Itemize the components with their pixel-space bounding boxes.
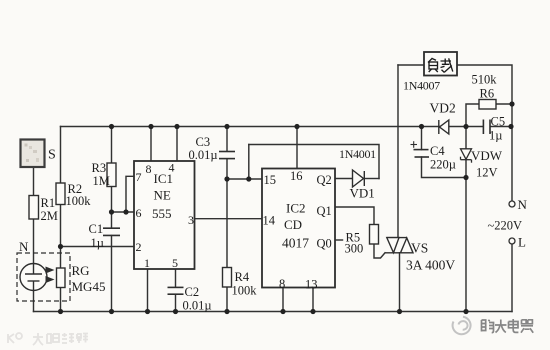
svg-text:IC1: IC1 [154,171,174,186]
svg-text:220µ: 220µ [430,158,456,172]
watermark 鹏升电器 (drawn glyphs) [482,319,534,333]
capacitor C4 polarized [414,150,430,157]
junction triac on ground rail [397,309,402,314]
watermark logo bottom right [453,317,471,334]
svg-text:100k: 100k [232,284,258,298]
svg-text:3A 400V: 3A 400V [406,258,455,273]
wire top VCC rail [61,126,484,128]
svg-text:R3: R3 [92,161,107,175]
svg-text:8: 8 [146,162,152,176]
svg-text:R1: R1 [41,196,56,210]
wire top rail right of C5 [491,126,512,128]
resistor R6 [479,100,496,110]
svg-text:Q1: Q1 [317,204,332,218]
wire VDW bottom to ground [465,160,467,312]
junction VDW on VCC rail [463,124,468,129]
wire RG bottom to ground rail [33,291,35,312]
svg-text:L: L [518,235,526,250]
wire pin8 stub [150,127,152,162]
svg-text:~220V: ~220V [488,219,523,233]
svg-text:5: 5 [172,256,178,270]
junction pin13 on ground rail [310,309,315,314]
wire load left [398,64,424,66]
wire C4 bottom elbow [422,157,467,178]
junction C4 on VCC rail [419,124,424,129]
svg-text:C2: C2 [185,285,200,299]
wire pin13 IC2 to ground [312,288,314,312]
svg-text:C5: C5 [491,115,506,129]
terminal L [509,238,515,244]
junction VDW on ground rail [463,309,468,314]
svg-text:1µ: 1µ [91,236,104,250]
wire load to triac top [397,65,399,238]
wire ground rail [34,311,513,313]
svg-text:VS: VS [411,241,428,256]
C4 plus sign [411,141,418,148]
junction C3 bottom at pin15 wire [224,176,229,181]
svg-text:N: N [518,197,528,212]
svg-text:2M: 2M [41,209,58,223]
svg-text:14: 14 [263,214,276,228]
capacitor C2 [168,287,184,294]
diode VD1 [353,170,365,187]
resistor R4 [223,268,232,288]
svg-text:MG45: MG45 [72,279,106,294]
svg-text:7: 7 [136,170,142,184]
junction RG on ground rail [58,309,63,314]
wire Q0 stub [335,239,343,241]
capacitor C3 [219,152,235,159]
wire Q1 to R5 [335,207,374,225]
wire pin6 [112,211,135,213]
load text 负载 (drawn glyphs) [428,58,453,72]
photocell dashed enclosure N [17,253,70,301]
svg-text:RG: RG [72,263,90,278]
junction R2-RG divider at pin2 wire [58,244,63,249]
svg-text:13: 13 [305,278,318,292]
terminal N [509,201,515,207]
svg-text:IC2: IC2 [286,201,306,216]
svg-text:VD2: VD2 [430,101,456,116]
wire VDW branch [465,127,467,149]
wire triac bottom to ground [399,253,401,312]
wire C3/R4 column upper [226,127,228,152]
svg-text:0.01µ: 0.01µ [189,148,218,162]
junction pin8 on VCC rail [148,124,153,129]
svg-text:16: 16 [290,169,303,183]
junction C4 bottom at VDW line [463,175,468,180]
svg-text:510k: 510k [472,73,498,87]
wire R6 right [496,103,512,105]
junction pin1 on ground rail [145,309,150,314]
svg-text:VD1: VD1 [350,186,375,201]
svg-text:4017: 4017 [282,236,309,251]
load box 负载 [424,52,457,76]
capacitor C1 [103,228,120,235]
junction C1 on ground rail [109,309,114,314]
watermark bottom left (drawn glyphs) [8,333,88,345]
svg-text:N: N [19,239,29,254]
svg-text:R4: R4 [235,270,250,284]
junction reset riser at pin15 wire [246,176,251,181]
wire pin16 stub [296,127,298,169]
photoresistor RG box [57,268,66,288]
svg-text:15: 15 [264,173,277,187]
junction C3 top on VCC rail [224,124,229,129]
resistor R2 [56,183,65,205]
svg-text:1: 1 [144,256,150,270]
sensor S [21,140,45,168]
svg-text:CD: CD [284,217,302,232]
junction pin4 on VCC rail [174,124,179,129]
svg-text:1µ: 1µ [489,129,502,143]
junction R6 right [509,101,514,106]
wire C4 branch [421,127,423,150]
wire R6 left riser [466,104,479,127]
wire reset node riser [248,145,250,180]
wire C1 bottom to ground [111,236,113,312]
wire left column S/R1/RG vertical [33,166,35,264]
wire R5 to gate [374,244,385,258]
wire pin8 IC2 to ground [282,288,284,312]
svg-text:R6: R6 [480,87,495,101]
svg-text:3: 3 [188,213,194,227]
svg-text:C3: C3 [196,135,211,149]
photocell lamp circle [20,264,47,291]
svg-text:8: 8 [279,277,285,291]
light arrows into RG [46,267,55,284]
wire R2 column vertical [60,127,62,312]
IC1 NE555 box [134,161,195,269]
wire pin5 to C2 [175,269,177,287]
wire VD1 cathode [366,178,380,180]
resistor R5 [370,225,379,245]
capacitor C5 [483,120,490,135]
zener VDW [461,149,472,163]
diode VD2 [439,120,449,134]
svg-text:1N4001: 1N4001 [339,147,376,161]
svg-text:2: 2 [136,240,142,254]
junction pin8 IC2 on ground rail [280,309,285,314]
resistor R1 [29,196,39,220]
svg-text:0.01µ: 0.01µ [183,299,212,313]
triac VS [385,238,414,253]
junction R3 top on VCC rail [109,124,114,129]
svg-text:1M: 1M [93,174,110,188]
junction C2 on ground rail [173,309,178,314]
wire C3 bottom down through R4 to ground [226,159,228,312]
wire reset top run to VD1 cathode [249,145,379,179]
svg-text:12V: 12V [476,166,498,180]
svg-text:Q2: Q2 [317,173,332,187]
svg-text:6: 6 [136,206,142,220]
wire pin4 stub [176,127,178,162]
wire pin15 reset node [227,178,262,180]
wire L terminal down to ground rail [511,244,513,312]
svg-text:555: 555 [152,206,172,221]
svg-text:300: 300 [345,242,364,256]
junction rail end at mains column [508,124,513,129]
junction R4 on ground rail [224,309,229,314]
svg-text:C4: C4 [430,144,445,158]
svg-text:S: S [48,148,56,163]
junction pin16 on VCC rail [294,124,299,129]
svg-text:Q0: Q0 [317,237,332,251]
wire R3/C1 column vertical [111,127,113,229]
svg-text:100k: 100k [66,194,92,208]
wire pin3 of IC1 to pin14 of IC2 [195,218,263,220]
wire Q2 to VD1 anode [335,178,353,180]
svg-text:C1: C1 [89,222,104,236]
wire C2 bottom to ground [175,294,177,311]
wire pin1 to ground [147,269,149,312]
junction pin7 elbow at pin6 node [123,209,128,214]
IC2 CD4017 box [262,169,335,288]
wire pin7 elbow [126,176,134,212]
svg-text:NE: NE [154,188,171,203]
resistor R3 [107,163,116,187]
wire pin2 [61,246,135,248]
svg-text:1N4007: 1N4007 [403,79,440,93]
svg-text:VDW: VDW [471,148,503,163]
wire load right [457,65,512,201]
junction C1 top at pin6 node [109,209,114,214]
